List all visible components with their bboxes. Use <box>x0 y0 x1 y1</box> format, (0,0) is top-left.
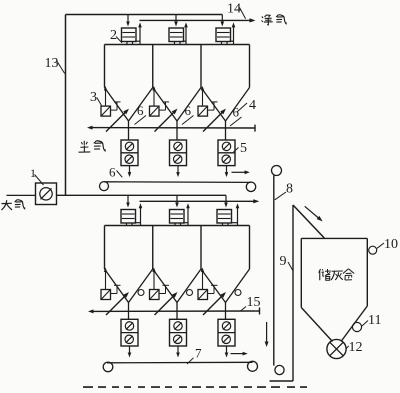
svg-text:13: 13 <box>45 56 59 71</box>
svg-text:14: 14 <box>227 2 241 17</box>
svg-text:5: 5 <box>240 141 247 156</box>
svg-text:1: 1 <box>30 166 36 180</box>
svg-text:3: 3 <box>90 90 97 105</box>
svg-text:12: 12 <box>349 340 363 355</box>
svg-text:6: 6 <box>185 103 192 118</box>
svg-text:15: 15 <box>247 295 261 310</box>
svg-text:8: 8 <box>286 182 293 197</box>
svg-text:11: 11 <box>368 313 381 328</box>
svg-text:4: 4 <box>249 98 256 113</box>
svg-text:10: 10 <box>384 237 398 252</box>
svg-text:6: 6 <box>137 103 144 118</box>
svg-text:6: 6 <box>109 165 116 180</box>
svg-text:2: 2 <box>110 28 117 43</box>
svg-text:9: 9 <box>280 254 287 269</box>
svg-text:6: 6 <box>233 105 240 120</box>
svg-text:7: 7 <box>195 346 202 361</box>
